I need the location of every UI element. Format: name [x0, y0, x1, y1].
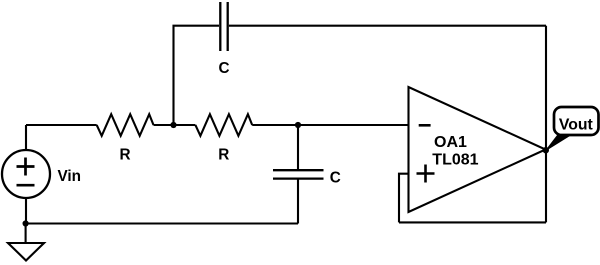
- resistor R2: [195, 114, 252, 136]
- resistor R1: [97, 114, 154, 136]
- node: ground junction at source bottom: [23, 220, 29, 226]
- wire: Vin top corner to R1: [26, 124, 97, 126]
- wire: C1 right plate along top rail to right side: [229, 25, 546, 27]
- capacitor C2 (shunt cap): [273, 125, 324, 224]
- svg-text:R: R: [218, 147, 229, 164]
- svg-text:R: R: [119, 147, 130, 164]
- voltage source Vin: [2, 125, 50, 224]
- node: op-amp output junction: [543, 147, 549, 153]
- svg-text:C: C: [218, 60, 229, 77]
- svg-text:C: C: [330, 169, 341, 186]
- wire: feedback bottom rail: [399, 221, 546, 223]
- svg-text:Vout: Vout: [559, 116, 594, 133]
- node: junction of R2/C2/op-amp input: [295, 122, 301, 128]
- op-amp OA1: [409, 87, 546, 212]
- wire: R2 to op-amp inverting input through node: [252, 124, 408, 126]
- svg-text:Vin: Vin: [58, 168, 82, 185]
- node: junction of R1/R2/C1: [170, 122, 176, 128]
- capacitor C1 (top feedback cap): [220, 2, 227, 51]
- wire: bottom ground rail: [26, 222, 298, 224]
- svg-text:OA1: OA1: [434, 134, 467, 151]
- wire: feedback up into op-amp + input: [399, 174, 409, 223]
- wire: right vertical from top rail down to feedback bottom: [545, 26, 547, 223]
- net label Vout (callout flag): [546, 107, 599, 150]
- wire: R1 to R2 through mid node: [154, 124, 196, 126]
- wire: mid-node up and over to C1 left plate: [174, 26, 220, 125]
- svg-text:TL081: TL081: [432, 151, 478, 168]
- ground: [8, 224, 44, 261]
